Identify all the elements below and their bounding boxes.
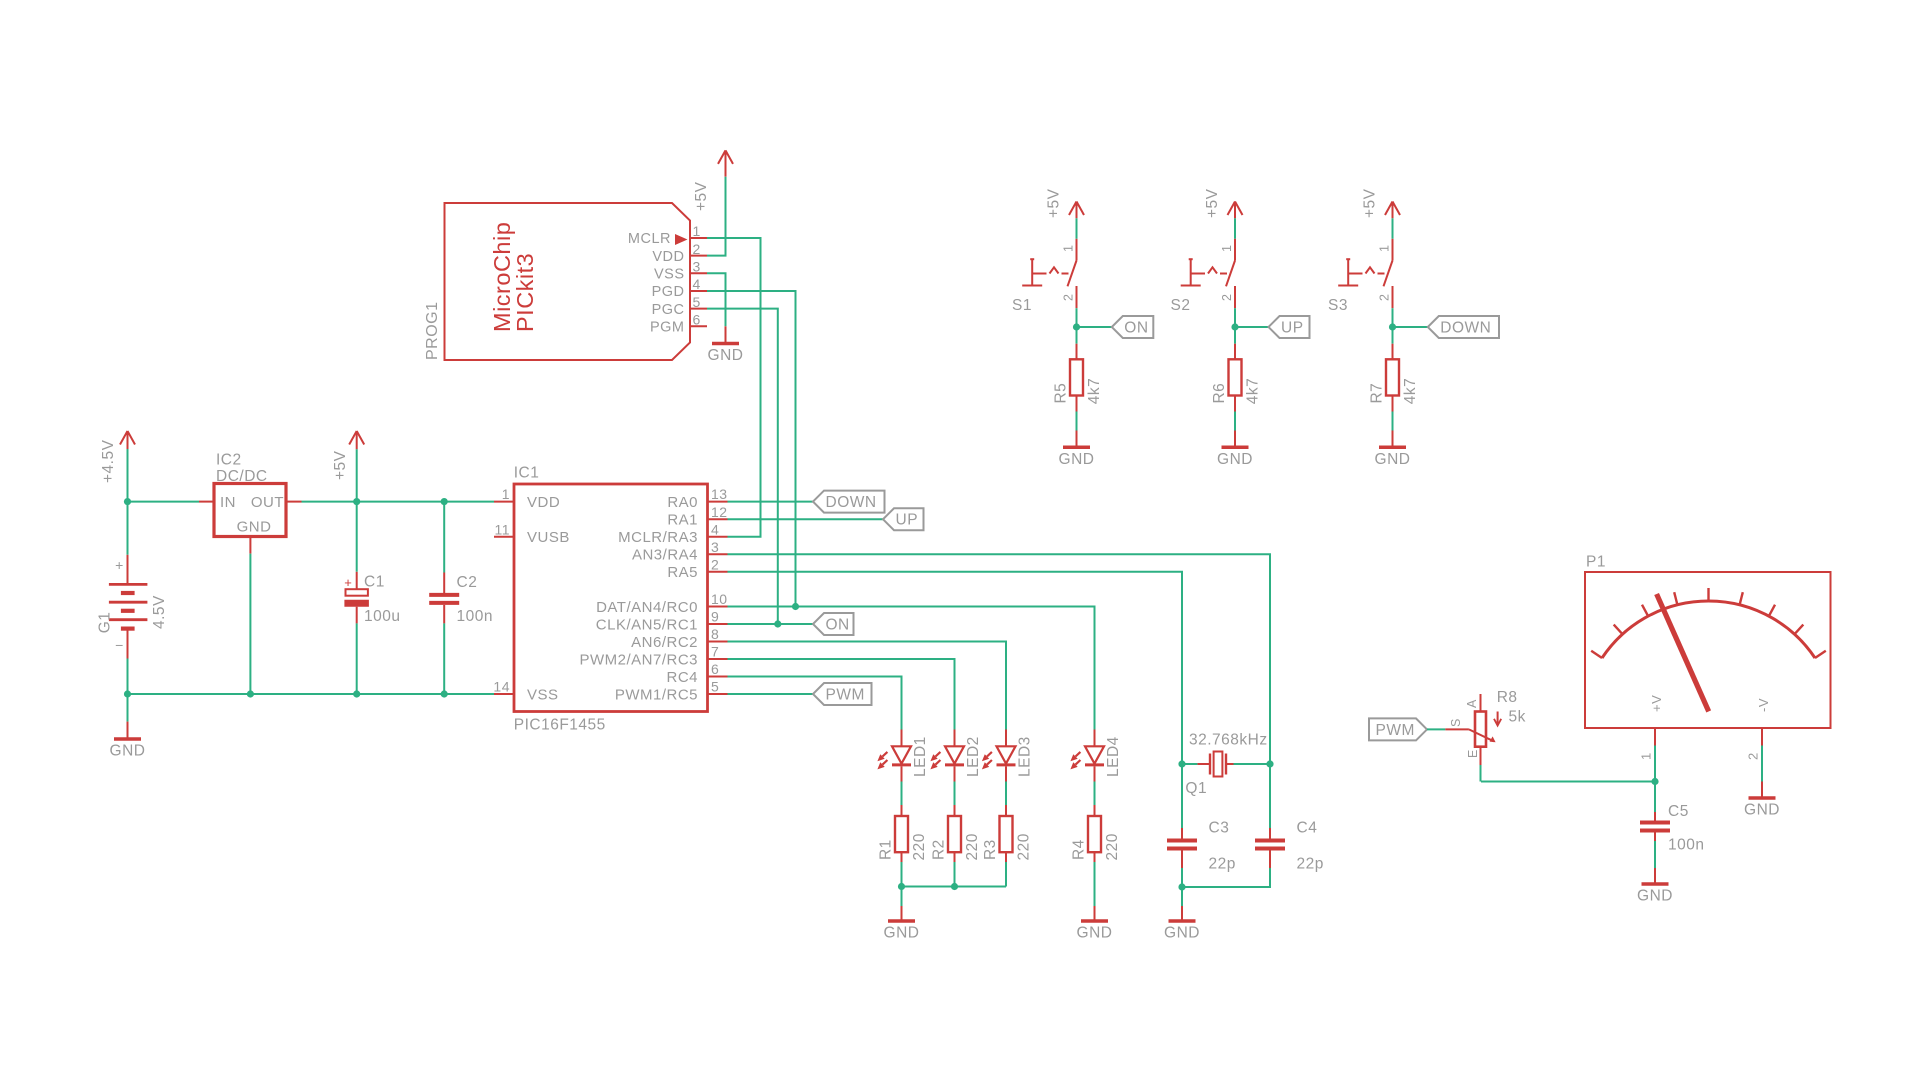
junction: [1231, 323, 1238, 330]
svg-text:GND: GND: [708, 347, 744, 364]
svg-text:RA0: RA0: [667, 494, 698, 511]
svg-text:2: 2: [711, 556, 719, 572]
svg-text:220: 220: [911, 833, 928, 860]
svg-text:2: 2: [1062, 294, 1076, 301]
ground S1: [1059, 447, 1095, 468]
junction: [1389, 323, 1396, 330]
svg-text:DOWN: DOWN: [826, 494, 877, 511]
svg-text:AN3/RA4: AN3/RA4: [632, 547, 698, 564]
capacitor C1 100u: [344, 572, 400, 625]
resistor R1 220: [878, 805, 928, 862]
svg-text:5: 5: [711, 679, 719, 695]
svg-text:PWM: PWM: [826, 686, 865, 703]
svg-text:GND: GND: [237, 519, 272, 536]
pin gnd stub: [1761, 782, 1763, 799]
wire: [356, 623, 358, 694]
pin IC1 7 PWM2/AN7/RC3: [579, 644, 727, 669]
net flag UP: [1269, 316, 1310, 338]
wire: [1182, 763, 1197, 765]
capacitor C2 100n: [429, 573, 493, 625]
wire: [443, 623, 445, 694]
pin PROG1 1 MCLR: [628, 223, 707, 247]
svg-text:1: 1: [1062, 245, 1076, 252]
svg-text:S3: S3: [1328, 297, 1348, 314]
IC U1 PIC16F1455 body: [514, 465, 708, 734]
LED LED2: [930, 730, 982, 782]
svg-text:LED3: LED3: [1017, 736, 1034, 777]
pin PROG1 4 PGD: [652, 276, 707, 300]
svg-text:4k7: 4k7: [1402, 378, 1419, 405]
svg-text:IN: IN: [220, 494, 236, 511]
wire: [1480, 765, 1482, 782]
svg-text:ON: ON: [826, 616, 850, 633]
svg-text:C1: C1: [364, 574, 385, 591]
supply +5V S2: [1204, 188, 1243, 218]
svg-text:4.5V: 4.5V: [151, 595, 168, 629]
wire: [1235, 326, 1269, 328]
connector PROG1 PICkit3: [424, 203, 690, 360]
svg-text:3: 3: [693, 259, 701, 275]
svg-text:1: 1: [502, 486, 510, 502]
pin gnd stub: [1654, 868, 1656, 884]
junction: [898, 883, 905, 890]
svg-text:VDD: VDD: [527, 494, 560, 511]
MCLR inversion arrow: [675, 234, 688, 245]
wire: [1761, 746, 1763, 782]
LED LED4: [1070, 730, 1122, 782]
wire: [1094, 862, 1096, 906]
pin gnd stub: [725, 326, 727, 343]
svg-text:PGD: PGD: [652, 284, 685, 300]
svg-text:ON: ON: [1124, 319, 1148, 336]
svg-text:2: 2: [1220, 294, 1234, 301]
svg-text:4: 4: [711, 521, 719, 537]
svg-text:9: 9: [711, 609, 719, 625]
svg-text:+4.5V: +4.5V: [100, 439, 117, 483]
junction: [1073, 323, 1080, 330]
svg-text:RC4: RC4: [666, 669, 698, 686]
pin PROG1 6 PGM: [650, 312, 707, 336]
pin IC2 OUT: [286, 501, 302, 503]
svg-text:6: 6: [693, 312, 701, 328]
junction: [441, 498, 448, 505]
DC/DC converter IC2: [214, 452, 286, 537]
svg-text:5: 5: [693, 294, 701, 310]
svg-text:+5V: +5V: [1204, 188, 1221, 218]
ground LED4: [1077, 921, 1113, 942]
ground S3: [1375, 447, 1411, 468]
net flag DOWN: [1428, 316, 1499, 338]
wire: [356, 449, 358, 572]
pin IC1 2 RA5: [667, 556, 727, 581]
svg-text:GND: GND: [1217, 451, 1253, 468]
svg-text:GND: GND: [1077, 925, 1113, 942]
wire: [127, 449, 129, 555]
resistor R4 220: [1071, 805, 1121, 862]
net flag PWM: [813, 683, 872, 705]
junction: [774, 620, 781, 627]
svg-text:LED4: LED4: [1105, 736, 1122, 777]
pin PROG1 2 VDD: [652, 241, 707, 265]
wire: [954, 862, 956, 887]
LED LED3: [982, 730, 1034, 782]
svg-text:DC/DC: DC/DC: [216, 468, 268, 485]
wire RC2 to LED3: [728, 642, 1007, 730]
wire: [1392, 308, 1394, 344]
pin gnd stub: [1076, 431, 1078, 448]
svg-text:LED2: LED2: [965, 736, 982, 777]
wire: [1392, 412, 1394, 431]
svg-text:13: 13: [711, 486, 728, 502]
svg-text:+5V: +5V: [332, 450, 349, 480]
svg-text:R2: R2: [931, 839, 948, 860]
ground PROG1: [708, 344, 744, 365]
svg-text:PIC16F1455: PIC16F1455: [514, 717, 606, 734]
net flag UP: [883, 508, 924, 530]
svg-text:C4: C4: [1297, 819, 1318, 836]
pin gnd stub: [1234, 431, 1236, 448]
junction: [353, 690, 360, 697]
svg-text:VSS: VSS: [527, 686, 559, 703]
wire: [901, 782, 903, 806]
pin IC1 1 VDD: [494, 486, 560, 511]
svg-text:GND: GND: [1059, 451, 1095, 468]
pin gnd stub: [901, 906, 903, 921]
capacitor C4 22p: [1255, 819, 1324, 872]
ground LEDs: [884, 921, 920, 942]
pin IC1 11 VUSB: [494, 521, 570, 546]
wire: [1076, 308, 1078, 344]
svg-text:OUT: OUT: [251, 494, 284, 511]
supply +4.5V: [100, 431, 135, 483]
capacitor C3 22p: [1167, 819, 1236, 872]
svg-text:8: 8: [711, 626, 719, 642]
wire: [954, 782, 956, 806]
svg-text:VDD: VDD: [652, 249, 684, 265]
junction: [1178, 760, 1185, 767]
svg-text:PGM: PGM: [650, 320, 685, 336]
svg-text:+5V: +5V: [693, 181, 710, 211]
pin IC2 GND: [249, 537, 251, 554]
junction: [124, 498, 131, 505]
junction: [353, 498, 360, 505]
capacitor C5 100n: [1640, 803, 1704, 854]
svg-text:+5V: +5V: [1046, 188, 1063, 218]
svg-text:MCLR: MCLR: [628, 231, 671, 247]
wire net PGC: [707, 309, 778, 624]
pin P1 1: [1639, 728, 1656, 760]
wire RA1 to UP: [728, 518, 884, 520]
junction: [792, 603, 799, 610]
wire: [1481, 781, 1655, 783]
svg-text:+: +: [115, 557, 124, 573]
net flag PWM: [1369, 718, 1427, 740]
supply +5V S3: [1362, 188, 1401, 218]
switch S2: [1171, 239, 1236, 314]
svg-text:S1: S1: [1012, 297, 1032, 314]
wire: [1234, 763, 1271, 765]
net flag ON: [813, 613, 854, 635]
wire: [1654, 746, 1656, 813]
svg-text:DAT/AN4/RC0: DAT/AN4/RC0: [596, 599, 698, 616]
pin gnd stub: [1392, 431, 1394, 448]
wire: [1182, 868, 1270, 887]
wire RA5 to crystal: [728, 572, 1183, 764]
svg-text:R5: R5: [1053, 383, 1070, 404]
svg-text:GND: GND: [110, 743, 146, 760]
svg-text:R6: R6: [1211, 383, 1228, 404]
pin IC1 5 PWM1/RC5: [615, 679, 728, 704]
wire: [128, 501, 200, 503]
junction: [124, 690, 131, 697]
svg-text:1: 1: [693, 223, 701, 239]
svg-text:R4: R4: [1071, 839, 1088, 860]
svg-text:220: 220: [1015, 833, 1032, 860]
svg-text:A: A: [1465, 699, 1479, 708]
svg-text:RA1: RA1: [667, 512, 698, 529]
LED LED1: [877, 730, 929, 782]
svg-text:R3: R3: [982, 839, 999, 860]
svg-text:PROG1: PROG1: [424, 301, 441, 360]
svg-text:CLK/AN5/RC1: CLK/AN5/RC1: [596, 616, 698, 633]
supply +5V PROG1: [693, 150, 733, 211]
wire VDD to +5V: [707, 177, 726, 256]
svg-text:PWM1/RC5: PWM1/RC5: [615, 686, 698, 703]
wire VSS to GND: [707, 273, 726, 326]
svg-text:-V: -V: [1756, 698, 1771, 712]
wire net MCLR: [707, 238, 761, 537]
wire: [1393, 326, 1428, 328]
svg-text:4k7: 4k7: [1245, 378, 1262, 405]
svg-text:AN6/RC2: AN6/RC2: [631, 634, 698, 651]
pin PROG1 3 VSS: [654, 259, 707, 283]
svg-text:C5: C5: [1668, 803, 1689, 820]
svg-text:S2: S2: [1171, 297, 1191, 314]
switch S1: [1012, 239, 1077, 314]
svg-text:7: 7: [711, 644, 719, 660]
junction: [1651, 778, 1658, 785]
svg-text:R1: R1: [878, 839, 895, 860]
pin IC1 6 RC4: [666, 661, 727, 686]
ground: [110, 722, 146, 760]
svg-text:IC2: IC2: [216, 452, 242, 469]
svg-text:+: +: [344, 575, 352, 590]
resistor R7 4k7: [1369, 344, 1419, 412]
junction: [1178, 883, 1185, 890]
svg-text:220: 220: [964, 833, 981, 860]
pin PROG1 5 PGC: [652, 294, 707, 318]
wire: [1094, 782, 1096, 806]
svg-text:DOWN: DOWN: [1440, 319, 1491, 336]
wire: [1005, 782, 1007, 806]
svg-text:UP: UP: [896, 512, 919, 529]
ground P1: [1744, 798, 1780, 819]
pin gnd stub: [1094, 906, 1096, 921]
svg-text:−: −: [115, 637, 124, 653]
wire: [249, 554, 251, 694]
wire: [1392, 218, 1394, 239]
meter P1: [1585, 554, 1831, 729]
wire: [128, 693, 495, 695]
svg-text:R7: R7: [1369, 383, 1386, 404]
svg-text:PICkit3: PICkit3: [512, 253, 538, 332]
wire RA4 to crystal: [728, 554, 1271, 764]
wire RC0 to LED4: [728, 607, 1095, 730]
pin IC1 3 AN3/RA4: [632, 539, 728, 564]
svg-text:IC1: IC1: [514, 465, 540, 482]
svg-text:VUSB: VUSB: [527, 529, 570, 546]
svg-text:GND: GND: [1164, 925, 1200, 942]
svg-text:2: 2: [693, 241, 701, 257]
svg-text:PWM2/AN7/RC3: PWM2/AN7/RC3: [579, 651, 698, 668]
net flag ON: [1112, 316, 1154, 338]
resistor R6 4k7: [1211, 344, 1261, 412]
wire RC1 to ON: [728, 623, 814, 625]
crystal Q1 32.768kHz: [1185, 732, 1267, 798]
svg-text:G1: G1: [97, 612, 114, 634]
pin IC1 4 MCLR/RA3: [618, 521, 727, 546]
battery G1 4.5V: [97, 555, 168, 659]
pin gnd stub: [1181, 906, 1183, 921]
svg-text:LED1: LED1: [912, 736, 929, 777]
pin IC1 8 AN6/RC2: [631, 626, 727, 651]
wire: [1427, 728, 1445, 730]
wire: [1076, 412, 1078, 431]
pin IC2 IN: [199, 501, 214, 503]
svg-text:22p: 22p: [1209, 856, 1236, 873]
svg-text:PWM: PWM: [1376, 722, 1415, 739]
resistor R5 4k7: [1053, 344, 1103, 412]
svg-text:UP: UP: [1281, 319, 1304, 336]
svg-text:+5V: +5V: [1362, 188, 1379, 218]
net flag DOWN: [813, 491, 885, 513]
junction: [441, 690, 448, 697]
junction: [247, 690, 254, 697]
svg-text:32.768kHz: 32.768kHz: [1189, 732, 1268, 749]
svg-text:1: 1: [1378, 245, 1392, 252]
wire RC5 to PWM: [728, 693, 814, 695]
pin IC1 12 RA1: [667, 504, 727, 529]
pin IC1 14 VSS: [493, 679, 558, 704]
svg-text:100n: 100n: [1668, 837, 1704, 854]
svg-text:C2: C2: [457, 574, 478, 591]
wire: [127, 659, 129, 722]
wire: [901, 862, 903, 906]
wire: [1181, 868, 1183, 906]
supply +5V rail: [332, 431, 364, 480]
pin IC1 9 CLK/AN5/RC1: [596, 609, 728, 634]
ground crystal: [1164, 921, 1200, 942]
wire: [1181, 764, 1183, 828]
wire: [1076, 218, 1078, 239]
svg-text:Q1: Q1: [1185, 780, 1207, 797]
junction: [951, 883, 958, 890]
wire: [1269, 764, 1271, 828]
svg-text:1: 1: [1220, 245, 1234, 252]
wire: [1077, 326, 1112, 328]
pin P1 2: [1746, 728, 1763, 760]
svg-text:220: 220: [1104, 833, 1121, 860]
wire: [1005, 862, 1007, 887]
svg-text:P1: P1: [1586, 554, 1606, 571]
wire: [1234, 308, 1236, 344]
svg-text:VSS: VSS: [654, 267, 685, 283]
svg-text:11: 11: [494, 521, 510, 537]
wire RC4 to LED1: [728, 677, 902, 730]
svg-text:GND: GND: [1375, 451, 1411, 468]
svg-text:MCLR/RA3: MCLR/RA3: [618, 529, 698, 546]
svg-text:E: E: [1466, 749, 1480, 758]
wire: [1234, 412, 1236, 431]
wire: [1234, 218, 1236, 239]
wire RC3 to LED2: [728, 659, 955, 730]
trimmer R8 5k: [1445, 689, 1526, 765]
ground S2: [1217, 447, 1253, 468]
wire: [443, 502, 445, 573]
pin IC1 10 DAT/AN4/RC0: [596, 591, 728, 616]
svg-text:4k7: 4k7: [1086, 378, 1103, 405]
svg-text:2: 2: [1378, 294, 1392, 301]
svg-text:4: 4: [693, 276, 701, 292]
wire: [302, 501, 495, 503]
svg-text:S: S: [1449, 718, 1463, 727]
svg-text:14: 14: [493, 679, 510, 695]
svg-text:PGC: PGC: [652, 302, 685, 318]
wire net PGD: [707, 291, 796, 607]
svg-text:GND: GND: [884, 925, 920, 942]
switch S3: [1328, 239, 1393, 314]
svg-text:12: 12: [711, 504, 728, 520]
svg-text:100u: 100u: [364, 608, 400, 625]
svg-text:RA5: RA5: [667, 564, 698, 581]
pin IC1 13 RA0: [667, 486, 727, 511]
resistor R3 220: [982, 805, 1032, 862]
svg-text:22p: 22p: [1297, 856, 1324, 873]
svg-text:1: 1: [1639, 752, 1654, 760]
svg-text:GND: GND: [1637, 888, 1673, 905]
resistor R2 220: [931, 805, 981, 862]
wire gnd rail leds: [902, 886, 1007, 888]
svg-text:2: 2: [1746, 752, 1761, 760]
svg-text:R8: R8: [1497, 689, 1518, 706]
svg-text:3: 3: [711, 539, 719, 555]
wire: [1654, 841, 1656, 868]
supply +5V S1: [1046, 188, 1085, 218]
svg-text:6: 6: [711, 661, 719, 677]
svg-text:GND: GND: [1744, 802, 1780, 819]
svg-text:5k: 5k: [1509, 709, 1526, 726]
svg-text:10: 10: [711, 591, 728, 607]
wire RA0 to DOWN: [728, 501, 814, 503]
svg-text:100n: 100n: [457, 608, 493, 625]
junction: [1266, 760, 1273, 767]
ground C5: [1637, 884, 1673, 905]
svg-text:C3: C3: [1209, 819, 1230, 836]
svg-text:+V: +V: [1649, 695, 1664, 712]
